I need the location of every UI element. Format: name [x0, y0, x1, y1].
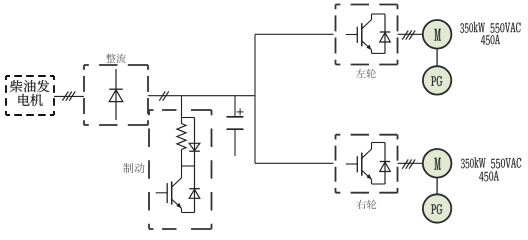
brake IGBT antiparallel diode D3 [189, 166, 200, 213]
DC link slash marks [159, 91, 168, 100]
label 柴油发 [10, 80, 49, 92]
left inverter emitter lead [371, 50, 373, 54]
rectifier diode D1 [109, 69, 123, 120]
encoder PG letters right [431, 204, 442, 214]
rating text left: 350kW [460, 22, 485, 33]
rating text right: 550VAC [491, 158, 521, 168]
right inverter box (右轮) [336, 135, 398, 193]
left inverter top rail [372, 13, 386, 15]
right inverter top rail [372, 142, 386, 144]
brake IGBT Q1 collector lead [181, 166, 183, 178]
wire inverter to motor right [398, 162, 423, 164]
generator box (柴油发电机) [6, 76, 54, 115]
node: brake top junction [182, 117, 195, 119]
label 整流 [106, 54, 126, 63]
wire M to PG right [436, 178, 438, 195]
label 左轮 [356, 69, 376, 78]
node: brake bottom rail [182, 212, 195, 214]
right inverter antiparallel diode [380, 143, 391, 185]
left inverter antiparallel diode [380, 14, 391, 53]
node: brake mid junction [182, 165, 195, 167]
left inverter IGBT [346, 20, 372, 51]
right inverter bottom rail [372, 183, 386, 185]
wire rectifier to DC node [148, 95, 255, 97]
motor M circle right [423, 149, 452, 178]
brake IGBT Q1 [156, 178, 182, 209]
rating text right: 350kW [461, 157, 486, 168]
wire generator to rectifier [54, 95, 84, 97]
wire junction down to brake chopper [181, 96, 183, 118]
DC bus top wire to left inverter [255, 33, 334, 35]
motor M letter right [434, 158, 440, 170]
right inverter emitter lead [371, 179, 373, 184]
brake chopper box (制动) [149, 110, 212, 229]
encoder PG circle right [423, 194, 451, 222]
encoder PG letters left [431, 76, 442, 86]
three-phase slash marks (right) [402, 159, 415, 168]
three-phase slash marks (left) [402, 30, 415, 39]
motor M letter left [434, 29, 440, 41]
brake freewheel diode D2 (points down) [189, 118, 200, 167]
label 电机 [18, 94, 42, 106]
wire inverter to motor left [398, 33, 423, 35]
three-phase slash marks (generator output) [62, 91, 75, 100]
left inverter bottom rail [372, 52, 386, 54]
rectifier box (整流) [84, 65, 148, 125]
wire M to PG left [436, 49, 438, 67]
brake IGBT Q1 emitter lead [181, 208, 183, 212]
label 右轮 [357, 200, 377, 209]
rating text right: 450A [479, 171, 498, 181]
rating text left: 550VAC [490, 22, 520, 32]
encoder PG circle left [423, 66, 451, 94]
left inverter collector lead [371, 14, 373, 20]
label 制动 [123, 163, 144, 173]
DC bus vertical [254, 34, 256, 163]
left inverter box (左轮) [336, 5, 398, 65]
capacitor plus sign [237, 108, 244, 115]
capacitor C1 [227, 96, 244, 156]
motor M circle left [423, 20, 452, 49]
brake resistor R1 [177, 118, 186, 167]
DC bus bottom wire to right inverter [255, 162, 334, 164]
right inverter IGBT [346, 149, 372, 180]
right inverter collector lead [371, 143, 373, 150]
rating text left: 450A [481, 35, 500, 45]
